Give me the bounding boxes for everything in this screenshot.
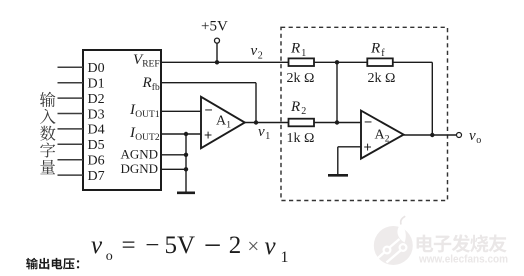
svg-text:OUT1: OUT1 (135, 110, 160, 120)
pin label VREF (133, 52, 160, 70)
wire: data input D3 stub (58, 113, 84, 115)
wire: IOUT2 to A1 non-inverting input (161, 133, 201, 135)
pin label D5 (88, 138, 105, 153)
watermark text 电子发烧友 (417, 234, 507, 252)
svg-text:R: R (290, 41, 300, 57)
svg-text:−: − (204, 227, 221, 262)
svg-text:2: 2 (385, 135, 390, 145)
ground symbol (A2) (328, 174, 348, 177)
svg-text:2k Ω: 2k Ω (287, 71, 315, 86)
wire: R1/Rf node down to inverting node (336, 62, 338, 122)
label R1 (290, 41, 306, 59)
svg-text:+: + (364, 139, 372, 155)
svg-text:D3: D3 (88, 107, 105, 122)
pin label D7 (88, 169, 105, 184)
pin label IOUT2 (129, 125, 160, 143)
svg-text:o: o (106, 249, 113, 264)
+5V supply terminal (201, 19, 228, 63)
pin label AGND (121, 147, 159, 162)
junction: R1/Rf node (335, 60, 339, 64)
caption: output voltage (输出电压:) (26, 258, 79, 270)
node vo label (469, 128, 481, 146)
svg-text:fb: fb (152, 82, 160, 93)
output terminal vo (457, 133, 462, 138)
pin label D6 (88, 154, 105, 169)
svg-text:R: R (370, 41, 380, 57)
wire: Rf to output node (393, 62, 433, 135)
svg-text:1: 1 (281, 249, 289, 266)
node v2 label (251, 43, 263, 61)
svg-text:REF: REF (142, 60, 159, 70)
svg-text:5V: 5V (165, 232, 196, 259)
junction: feedback joins v1 node (254, 120, 258, 124)
svg-text:R: R (290, 99, 300, 115)
value 1k ohm (R2) (287, 131, 315, 146)
svg-text:2: 2 (258, 51, 263, 62)
svg-text:f: f (381, 48, 385, 59)
svg-text:1: 1 (226, 120, 231, 130)
wire: IOUT1 to A1 inverting input (161, 110, 201, 112)
node v1 label (258, 124, 270, 142)
label R2 (290, 99, 306, 117)
pin label D4 (88, 123, 105, 138)
watermark url www.elecfans.com (418, 254, 508, 266)
op-amp A1 (201, 97, 245, 148)
wire: R1 to Rf (314, 61, 367, 63)
wire: data input D1 stub (58, 82, 84, 84)
wire: data input D0 stub (58, 66, 84, 68)
svg-text:OUT2: OUT2 (135, 133, 160, 143)
svg-text:D7: D7 (88, 169, 105, 184)
pin label IOUT1 (129, 102, 160, 120)
svg-text:D5: D5 (88, 138, 105, 153)
junction: DGND to ground bus (184, 167, 188, 171)
wire: data input D2 stub (58, 97, 84, 99)
resistor Rf 2k (367, 58, 393, 66)
pin label D2 (88, 92, 105, 107)
svg-text:1k Ω: 1k Ω (287, 131, 315, 146)
wire: VREF pin to R1 (node v2) (161, 61, 289, 63)
value 2k ohm (Rf) (368, 71, 396, 86)
svg-text:2k Ω: 2k Ω (368, 71, 396, 86)
resistor R1 2k (289, 58, 315, 66)
wire: A2 output to vo terminal (404, 134, 457, 136)
svg-text:1: 1 (301, 48, 306, 59)
wire: AGND stub (161, 154, 186, 156)
svg-text:v: v (91, 232, 103, 259)
wire: data input D6 stub (58, 159, 84, 161)
ground symbol (DAC/A1) (177, 192, 195, 195)
junction: inverting input node (335, 120, 339, 124)
wire: DGND stub (161, 168, 186, 170)
svg-text:D1: D1 (88, 77, 105, 92)
watermark logo circle (374, 216, 413, 265)
svg-text:www.elecfans.com: www.elecfans.com (418, 254, 508, 266)
svg-text:o: o (476, 135, 481, 146)
svg-text:1: 1 (265, 131, 270, 142)
wire: data input D5 stub (58, 143, 84, 145)
pin label D3 (88, 107, 105, 122)
junction: +5V tap on VREF wire (215, 60, 219, 64)
svg-text:D6: D6 (88, 154, 105, 169)
wire: A2 non-inverting input to ground (338, 147, 361, 175)
svg-text:R: R (142, 75, 152, 91)
svg-text:−: − (205, 102, 213, 118)
DAC U1 box (83, 50, 161, 190)
svg-text:−: − (364, 114, 372, 130)
svg-text:×: × (247, 234, 259, 258)
svg-text:+: + (204, 127, 212, 143)
svg-text:v: v (251, 43, 258, 59)
svg-text:DGND: DGND (121, 161, 159, 176)
wire: A1 output to R2 (node v1) (245, 122, 289, 124)
svg-text:AGND: AGND (121, 147, 159, 162)
dashed enclosure box (281, 27, 448, 200)
pin label D1 (88, 77, 105, 92)
wire: R2 to A2 inverting input (314, 122, 361, 124)
label Rf (370, 41, 385, 59)
svg-text:v: v (469, 128, 476, 144)
pin label D0 (88, 61, 105, 76)
svg-text:−: − (145, 232, 159, 259)
op-amp A2 (361, 111, 404, 159)
svg-text:+5V: +5V (201, 19, 228, 35)
junction: AGND to ground bus (184, 153, 188, 157)
svg-text:D2: D2 (88, 92, 105, 107)
junction: IOUT2 to ground bus (184, 132, 188, 136)
svg-text:D0: D0 (88, 61, 105, 76)
svg-text:v: v (258, 124, 265, 140)
wire: data input D7 stub (58, 174, 84, 176)
wire: Rfb pin to A1 output (feedback) (161, 83, 256, 123)
svg-text:=: = (122, 232, 136, 259)
svg-text:2: 2 (229, 232, 242, 259)
caption: input digital quantity (vertical Chinese 输入数字量) (40, 92, 56, 174)
value 2k ohm (R1) (287, 71, 315, 86)
svg-text:2: 2 (301, 106, 306, 117)
junction: feedback joins output (430, 133, 434, 137)
resistor R2 1k (289, 119, 315, 127)
pin label Rfb (142, 75, 160, 93)
wire: ground bus vertical (185, 134, 187, 192)
svg-text:v: v (265, 233, 277, 260)
svg-text:D4: D4 (88, 123, 105, 138)
wire: data input D4 stub (58, 128, 84, 130)
formula vo = -5V - 2 x v1 (91, 227, 289, 266)
pin label DGND (121, 161, 159, 176)
